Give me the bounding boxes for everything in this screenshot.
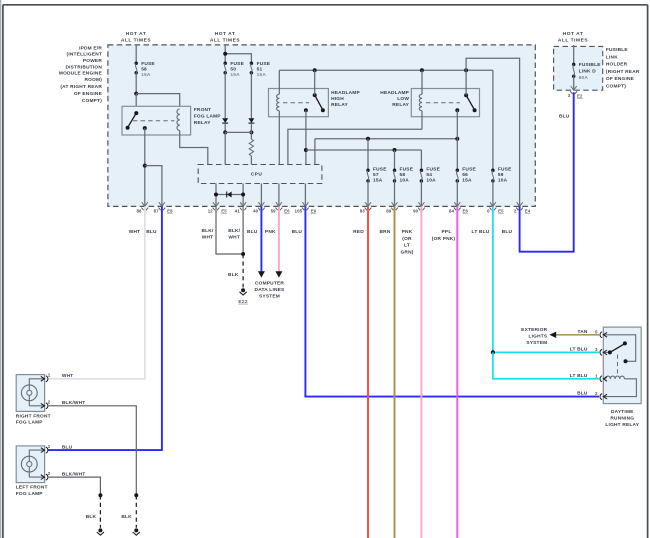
pin 3 E2 exit bbox=[568, 86, 583, 99]
svg-text:(INTELLIGENT: (INTELLIGENT bbox=[67, 52, 102, 58]
wire fuse 50 to diode bbox=[224, 73, 226, 119]
wire junction to fog relay coil bbox=[136, 94, 180, 107]
svg-text:LINK: LINK bbox=[606, 54, 618, 60]
wire rail to high relay coil bbox=[278, 70, 280, 94]
front fog lamp relay label bbox=[194, 107, 222, 126]
svg-text:WHT: WHT bbox=[62, 373, 74, 379]
svg-text:ALL TIMES: ALL TIMES bbox=[558, 38, 588, 44]
svg-text:OF ENGINE: OF ENGINE bbox=[74, 91, 103, 97]
svg-text:PNK: PNK bbox=[402, 229, 413, 235]
power rail top bbox=[279, 69, 493, 71]
wire rail to fuse 59 bbox=[492, 70, 494, 170]
svg-text:HOT AT: HOT AT bbox=[126, 31, 147, 37]
svg-text:FUSE: FUSE bbox=[373, 167, 387, 173]
svg-text:50: 50 bbox=[230, 66, 236, 72]
svg-text:E6: E6 bbox=[463, 209, 469, 214]
svg-text:3: 3 bbox=[595, 347, 598, 352]
wire fog relay switch output bbox=[144, 128, 146, 206]
wire LT BLU to relay pin1 bbox=[493, 352, 599, 378]
daytime running light relay pin labels bbox=[595, 329, 598, 396]
wire label BLK/WHT pin41 bbox=[228, 228, 240, 241]
junction ground tie bbox=[241, 252, 245, 256]
svg-text:40: 40 bbox=[253, 208, 259, 213]
svg-text:83: 83 bbox=[360, 208, 366, 213]
svg-text:(OR PNK): (OR PNK) bbox=[432, 236, 456, 242]
wire hot to fusible link d bbox=[573, 45, 575, 64]
svg-text:2: 2 bbox=[514, 208, 517, 213]
svg-text:FUSE: FUSE bbox=[141, 61, 155, 67]
wire fuse 56 to pin 84 bbox=[456, 181, 458, 207]
svg-text:57: 57 bbox=[373, 172, 379, 178]
wire CPU pin 40 bbox=[260, 184, 262, 207]
wire WHT pin86 to right front fog lamp bbox=[48, 206, 145, 378]
daytime running light relay label bbox=[605, 409, 639, 428]
fuse 58 10A bbox=[393, 167, 414, 184]
diode D1 bbox=[222, 118, 228, 123]
svg-text:(RIGHT REAR: (RIGHT REAR bbox=[606, 69, 640, 75]
junction fuse 50/51 feed bbox=[223, 52, 227, 56]
node COMPUTER DATA LINES SYSTEM bbox=[255, 281, 285, 300]
svg-text:LOW: LOW bbox=[397, 96, 409, 102]
pin 86 exit bbox=[137, 202, 149, 213]
svg-text:PNK: PNK bbox=[265, 229, 276, 235]
svg-text:BLK/: BLK/ bbox=[202, 228, 214, 234]
left front fog lamp E2 bbox=[16, 446, 48, 483]
svg-text:GRN): GRN) bbox=[400, 249, 413, 255]
IPDM E/R module box (dashed) bbox=[108, 45, 535, 207]
fuse 50 15A bbox=[223, 61, 244, 78]
wire fuse 57 to pin 83 bbox=[367, 181, 369, 207]
svg-text:E6: E6 bbox=[284, 209, 290, 214]
svg-text:BLU: BLU bbox=[502, 229, 513, 235]
pin 89 exit bbox=[386, 202, 398, 213]
junction fuse 56 rail A bbox=[455, 137, 459, 141]
wire BRN pin89 bbox=[394, 206, 396, 538]
wire high relay switch out to CPU bbox=[305, 110, 307, 164]
power rail B to fuses 58/54 bbox=[306, 150, 422, 170]
headlamp high relay label bbox=[331, 90, 360, 108]
wire label BLK/WHT pin12 bbox=[202, 228, 214, 241]
junction rail B bbox=[304, 148, 308, 152]
wire to CPU left bbox=[224, 132, 226, 164]
fusible link D 60A bbox=[572, 62, 601, 81]
svg-text:E8: E8 bbox=[167, 209, 173, 214]
wire CPU pin 41 bbox=[242, 184, 244, 207]
svg-text:HOT AT: HOT AT bbox=[563, 31, 584, 37]
svg-text:RELAY: RELAY bbox=[331, 102, 348, 108]
wire branch to pin 87 bbox=[145, 166, 162, 207]
svg-text:2: 2 bbox=[595, 391, 598, 396]
wire battery feed rail to pin 2 bbox=[466, 58, 519, 206]
node HOT AT ALL TIMES (left) bbox=[121, 31, 151, 43]
svg-text:1: 1 bbox=[595, 373, 598, 378]
svg-text:E9: E9 bbox=[311, 209, 317, 214]
fusible link holder label bbox=[606, 47, 640, 90]
svg-text:10A: 10A bbox=[426, 178, 436, 184]
svg-text:COMPT): COMPT) bbox=[606, 84, 626, 90]
svg-text:HOT AT: HOT AT bbox=[215, 31, 236, 37]
headlamp low relay K3 bbox=[411, 89, 479, 117]
svg-text:FUSE: FUSE bbox=[426, 167, 440, 173]
pin 87 exit bbox=[154, 202, 174, 213]
wire fuse 58 to pin 89 bbox=[394, 181, 396, 207]
svg-text:LIGHTS: LIGHTS bbox=[529, 334, 548, 340]
junction fuse 58 rail B bbox=[393, 148, 397, 152]
fusible link holder box bbox=[554, 46, 603, 90]
wire BLK to ground E22 (dashed) bbox=[242, 254, 244, 288]
svg-text:CPU: CPU bbox=[251, 172, 263, 178]
svg-text:BRN: BRN bbox=[380, 229, 391, 235]
wire RED pin83 bbox=[367, 206, 369, 538]
svg-text:1: 1 bbox=[48, 373, 51, 378]
wire BLK dashed left bbox=[99, 495, 101, 528]
left front fog lamp label bbox=[16, 485, 48, 497]
svg-text:IPDM E/R: IPDM E/R bbox=[79, 45, 102, 51]
svg-text:FOG LAMP: FOG LAMP bbox=[194, 114, 222, 120]
svg-text:BLK: BLK bbox=[86, 514, 97, 520]
svg-text:RELAY: RELAY bbox=[194, 120, 211, 126]
headlamp high relay K2 bbox=[269, 89, 329, 117]
svg-text:WHT: WHT bbox=[129, 229, 141, 235]
svg-text:E22: E22 bbox=[238, 299, 247, 305]
wire BLU pin40 to computer data lines bbox=[258, 206, 265, 277]
svg-text:41: 41 bbox=[235, 208, 241, 213]
node HOT AT ALL TIMES (middle) bbox=[210, 31, 240, 43]
wire diode row 12-41 bbox=[216, 194, 243, 196]
svg-text:90: 90 bbox=[413, 208, 419, 213]
wire rail B to fuse 58 bbox=[394, 150, 396, 170]
svg-text:TAN: TAN bbox=[577, 329, 587, 335]
fuse 54 10A bbox=[420, 167, 441, 184]
junction rail low coil bbox=[420, 68, 424, 72]
wire BLK/WHT right fog to ground bbox=[48, 406, 136, 496]
CPU U1 bbox=[198, 165, 322, 184]
diode D3 bbox=[227, 192, 232, 198]
svg-text:(OR: (OR bbox=[402, 236, 412, 242]
junction rail low switch bbox=[464, 68, 468, 72]
wire BLK/WHT left fog to ground bbox=[48, 477, 101, 495]
svg-text:SYSTEM: SYSTEM bbox=[526, 340, 547, 346]
front fog lamp relay K1 bbox=[122, 106, 191, 135]
ground left fog bbox=[98, 528, 102, 532]
pin 12 exit bbox=[208, 202, 228, 213]
svg-text:1: 1 bbox=[48, 444, 51, 449]
svg-text:3: 3 bbox=[568, 93, 571, 98]
wire fog relay coil to CPU bbox=[180, 131, 208, 165]
junction ground right bbox=[134, 493, 138, 497]
pin 41 exit bbox=[235, 202, 247, 213]
wire PNK pin59 to computer data lines bbox=[275, 206, 282, 277]
junction switch output split bbox=[143, 164, 147, 168]
ground right fog bbox=[134, 528, 138, 532]
svg-text:DATA LINES: DATA LINES bbox=[255, 287, 285, 293]
svg-text:WHT: WHT bbox=[228, 235, 240, 241]
wire CPU pin 105 bbox=[304, 184, 306, 207]
svg-text:BLU: BLU bbox=[559, 113, 570, 119]
svg-text:DAYTIME: DAYTIME bbox=[611, 409, 634, 415]
svg-text:DISTRIBUTION: DISTRIBUTION bbox=[65, 64, 102, 70]
fuse 58 15A bbox=[134, 61, 155, 78]
svg-text:FUSE: FUSE bbox=[498, 167, 512, 173]
svg-text:FUSE: FUSE bbox=[230, 61, 244, 67]
svg-text:BLU: BLU bbox=[62, 444, 73, 450]
svg-text:COMPT): COMPT) bbox=[82, 98, 102, 104]
svg-text:E5: E5 bbox=[498, 209, 504, 214]
svg-text:POWER: POWER bbox=[83, 58, 102, 64]
wire fuse 58 to junction bbox=[135, 73, 137, 94]
wire low relay switch out to fuse 56 bbox=[456, 110, 458, 170]
svg-text:LIGHT RELAY: LIGHT RELAY bbox=[605, 422, 639, 428]
wire fuse 59 to pin 6 bbox=[492, 181, 494, 207]
svg-text:6: 6 bbox=[487, 208, 490, 213]
pin 59 exit bbox=[271, 202, 291, 213]
svg-text:ALL TIMES: ALL TIMES bbox=[210, 38, 240, 44]
wire rail to low relay coil bbox=[421, 70, 423, 94]
wire label PPL OR PNK pin84 bbox=[432, 229, 456, 242]
pin 90 exit bbox=[413, 202, 425, 213]
svg-text:BLK: BLK bbox=[121, 514, 132, 520]
svg-text:ROOM): ROOM) bbox=[84, 77, 102, 83]
svg-text:60A: 60A bbox=[579, 75, 589, 81]
svg-text:58: 58 bbox=[400, 172, 406, 178]
right front fog lamp E1 bbox=[16, 375, 48, 412]
svg-text:LEFT FRONT: LEFT FRONT bbox=[16, 485, 48, 491]
wire BLK/WHT pin41 bbox=[242, 206, 244, 254]
svg-text:HEADLAMP: HEADLAMP bbox=[380, 90, 409, 96]
svg-text:EXTERIOR: EXTERIOR bbox=[521, 327, 547, 333]
svg-text:2: 2 bbox=[48, 471, 51, 476]
pin 105 exit bbox=[295, 202, 317, 213]
junction diode left bbox=[214, 193, 218, 197]
svg-text:HOLDER: HOLDER bbox=[606, 62, 628, 68]
svg-text:E5: E5 bbox=[221, 209, 227, 214]
svg-text:12: 12 bbox=[208, 208, 214, 213]
svg-text:87: 87 bbox=[154, 208, 160, 213]
svg-text:OF ENGINE: OF ENGINE bbox=[606, 76, 635, 82]
svg-text:FUSE: FUSE bbox=[400, 167, 414, 173]
junction fuse 57 rail A bbox=[366, 137, 370, 141]
fuse 51 15A bbox=[250, 61, 271, 78]
wire PPL pin84 bbox=[456, 206, 458, 538]
wire BLU pin105 to daytime running light relay pin 2 bbox=[305, 206, 599, 396]
svg-text:FUSE: FUSE bbox=[462, 167, 476, 173]
svg-text:SYSTEM: SYSTEM bbox=[259, 293, 280, 299]
wire junction to fog relay switch bbox=[135, 94, 137, 114]
right front fog lamp pin labels bbox=[48, 373, 51, 405]
svg-text:E4: E4 bbox=[525, 209, 531, 214]
wire CPU pin 12 bbox=[215, 184, 217, 207]
svg-text:LT BLU: LT BLU bbox=[570, 373, 588, 379]
wire HOT AT to fuse 50/51 split bbox=[225, 45, 251, 63]
svg-text:FOG LAMP: FOG LAMP bbox=[16, 420, 44, 426]
svg-text:15A: 15A bbox=[462, 178, 472, 184]
svg-text:86: 86 bbox=[137, 208, 143, 213]
wire BLK dashed right bbox=[135, 495, 137, 528]
svg-text:E2: E2 bbox=[577, 94, 583, 99]
svg-text:LT BLU: LT BLU bbox=[570, 346, 588, 352]
junction fuse58 branch bbox=[134, 92, 138, 96]
pin 40 exit bbox=[253, 202, 265, 213]
svg-text:HEADLAMP: HEADLAMP bbox=[331, 90, 360, 96]
wire fuse 51 to diode bbox=[250, 73, 252, 119]
svg-text:59: 59 bbox=[271, 208, 277, 213]
svg-text:FUSE: FUSE bbox=[257, 61, 271, 67]
svg-text:BLU: BLU bbox=[292, 229, 303, 235]
wire rail to high relay switch bbox=[314, 70, 316, 95]
svg-text:LT: LT bbox=[404, 243, 410, 249]
svg-text:15A: 15A bbox=[257, 72, 267, 78]
pin 2 exit bbox=[514, 202, 531, 213]
svg-text:BLK/: BLK/ bbox=[228, 228, 240, 234]
svg-text:BLK/WHT: BLK/WHT bbox=[62, 400, 86, 406]
pin 83 exit bbox=[360, 202, 372, 213]
svg-text:WHT: WHT bbox=[202, 235, 214, 241]
svg-text:2: 2 bbox=[48, 400, 51, 405]
svg-text:10A: 10A bbox=[498, 178, 508, 184]
headlamp low relay label bbox=[380, 90, 409, 108]
svg-text:BLK: BLK bbox=[228, 272, 239, 278]
wire rail A to fuse 57 bbox=[367, 139, 369, 171]
svg-text:56: 56 bbox=[462, 172, 468, 178]
svg-text:BLK/WHT: BLK/WHT bbox=[62, 471, 86, 477]
svg-text:51: 51 bbox=[257, 66, 263, 72]
svg-text:PPL: PPL bbox=[442, 229, 452, 235]
svg-text:FRONT: FRONT bbox=[194, 107, 212, 113]
svg-text:15A: 15A bbox=[373, 178, 383, 184]
svg-text:RED: RED bbox=[353, 229, 364, 235]
svg-text:5: 5 bbox=[595, 329, 598, 334]
svg-text:HIGH: HIGH bbox=[331, 96, 344, 102]
svg-text:LINK D: LINK D bbox=[579, 68, 597, 74]
svg-text:54: 54 bbox=[426, 172, 432, 178]
fuse 57 15A bbox=[366, 167, 387, 184]
pin 84 exit bbox=[449, 202, 469, 213]
svg-text:FUSIBLE: FUSIBLE bbox=[579, 62, 602, 68]
junction diodes tie bbox=[223, 130, 227, 134]
wire CPU pin 59 bbox=[278, 184, 280, 207]
wire fusible link to pin 3 bbox=[573, 76, 575, 89]
svg-text:59: 59 bbox=[498, 172, 504, 178]
svg-text:10A: 10A bbox=[400, 178, 410, 184]
svg-text:RIGHT FRONT: RIGHT FRONT bbox=[16, 413, 51, 419]
power rail A from CPU to fuses 57/56 bbox=[315, 139, 457, 165]
right front fog lamp label bbox=[16, 413, 51, 425]
svg-text:COMPUTER: COMPUTER bbox=[255, 281, 284, 287]
ground E22 bbox=[238, 288, 247, 305]
junction diode right bbox=[241, 193, 245, 197]
svg-text:ALL TIMES: ALL TIMES bbox=[121, 38, 151, 44]
svg-text:MODULE ENGINE: MODULE ENGINE bbox=[59, 71, 103, 77]
left front fog lamp pin labels bbox=[48, 444, 51, 476]
svg-text:84: 84 bbox=[449, 208, 455, 213]
svg-text:RUNNING: RUNNING bbox=[610, 415, 634, 421]
node HOT AT ALL TIMES (right) bbox=[558, 31, 588, 43]
svg-text:FUSIBLE: FUSIBLE bbox=[606, 47, 629, 53]
daytime running light relay K4 bbox=[600, 327, 641, 404]
node EXTERIOR LIGHTS SYSTEM bbox=[521, 327, 548, 346]
svg-text:RELAY: RELAY bbox=[392, 102, 409, 108]
wire PNK pin90 bbox=[420, 206, 422, 538]
resistor R1 bbox=[249, 132, 253, 164]
wire BLK/WHT pin12 bbox=[216, 206, 243, 254]
svg-text:89: 89 bbox=[386, 208, 392, 213]
svg-text:105: 105 bbox=[295, 208, 303, 213]
wire fuse 54 to pin 90 bbox=[420, 181, 422, 207]
wire from HOT AT ALL TIMES to fuse 58 bbox=[135, 45, 137, 63]
wire BLU pin87 to left front fog lamp bbox=[48, 206, 162, 450]
wire junction tie bbox=[225, 124, 251, 132]
junction LT BLU split bbox=[491, 350, 495, 354]
rail low coil to CPU bbox=[288, 111, 422, 165]
wire high relay coil to CPU bbox=[278, 111, 280, 165]
fuse 56 15A bbox=[456, 167, 477, 184]
svg-text:(AT RIGHT REAR: (AT RIGHT REAR bbox=[60, 84, 102, 90]
svg-text:15A: 15A bbox=[141, 72, 151, 78]
svg-text:58: 58 bbox=[141, 66, 147, 72]
diode D2 bbox=[248, 118, 254, 123]
svg-text:BLU: BLU bbox=[577, 391, 588, 397]
svg-text:15A: 15A bbox=[230, 72, 240, 78]
wire BLU pin2 to fusible link bbox=[520, 92, 574, 252]
wire TAN relay pin5 to exterior lights bbox=[549, 332, 599, 338]
svg-text:FOG LAMP: FOG LAMP bbox=[16, 491, 44, 497]
wire diode D1 to junction bbox=[224, 124, 226, 132]
wire LT BLU pin6 to relay pin3 bbox=[493, 206, 599, 352]
junction rail high switch bbox=[313, 68, 317, 72]
IPDM E/R label text bbox=[59, 45, 103, 104]
svg-text:LT BLU: LT BLU bbox=[472, 229, 490, 235]
fuse 59 10A bbox=[491, 167, 512, 184]
svg-text:BLU: BLU bbox=[247, 229, 258, 235]
wire label PNK OR LT GRN pin90 bbox=[400, 229, 413, 255]
pin 6 exit bbox=[487, 202, 504, 213]
svg-text:BLU: BLU bbox=[146, 229, 157, 235]
junction ground left bbox=[98, 493, 102, 497]
